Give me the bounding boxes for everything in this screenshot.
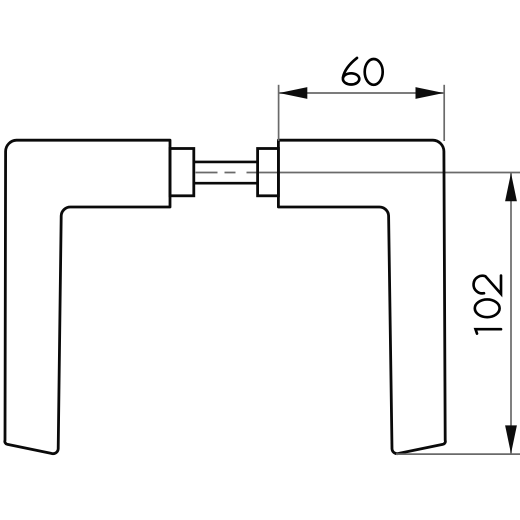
- centerline extension to right edge: [247, 172, 520, 174]
- dim60 arrow right: [416, 87, 444, 99]
- right neck: [258, 149, 279, 196]
- spindle top line: [194, 161, 258, 164]
- dim102 arrow bottom: [505, 425, 517, 453]
- dim60 text 60: [343, 58, 383, 85]
- left neck: [170, 149, 194, 196]
- dim60 extension line left: [278, 85, 280, 141]
- dim60 dimension line: [279, 92, 445, 94]
- dim102 arrow top: [505, 173, 517, 201]
- dim60 extension line right: [443, 85, 445, 141]
- right handle body: [278, 140, 445, 453]
- dim102 text 102 rotated: [474, 276, 501, 334]
- left handle body: [5, 140, 170, 453]
- centerline dash-dot: [196, 172, 247, 174]
- dim60 arrow left: [279, 87, 307, 99]
- dim102 dimension line: [510, 173, 512, 455]
- dim102 extension line bottom: [396, 453, 520, 455]
- spindle bottom line: [194, 182, 258, 185]
